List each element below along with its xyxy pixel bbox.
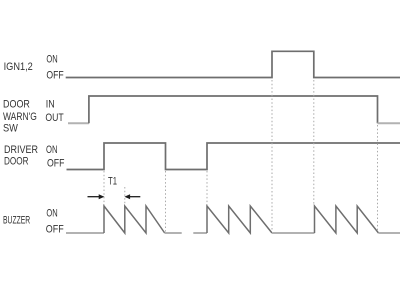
node dashed guide x=124.8 T1 right bbox=[124, 187, 126, 205]
svg-text:BUZZER: BUZZER bbox=[3, 215, 30, 227]
svg-text:WARN'G: WARN'G bbox=[3, 111, 37, 123]
node dashed guide x=104 driver-door-open bbox=[103, 171, 105, 205]
wire DRIVER DOOR waveform bbox=[67, 143, 401, 170]
svg-text:DOOR: DOOR bbox=[3, 99, 30, 111]
wire SW waveform bbox=[89, 96, 378, 123]
wire BUZZER sawtooth group 2 bbox=[207, 206, 272, 233]
svg-text:OUT: OUT bbox=[45, 112, 64, 124]
svg-text:IN: IN bbox=[46, 98, 55, 110]
svg-text:OFF: OFF bbox=[47, 157, 65, 169]
node dashed guide x=313.8 IGN off bbox=[313, 80, 315, 205]
wire BUZZER sawtooth group 3 bbox=[315, 206, 379, 233]
svg-text:ON: ON bbox=[46, 53, 57, 65]
wire BUZZER idle baseline 2a bbox=[165, 232, 182, 234]
wire BUZZER idle baseline 3 bbox=[272, 232, 315, 234]
node dashed guide x=207 driver-door-reopen bbox=[206, 171, 208, 205]
wire SW OUT idle right bbox=[378, 122, 401, 124]
wire SW OUT idle left bbox=[68, 122, 89, 124]
svg-text:ON: ON bbox=[46, 144, 58, 156]
svg-text:OFF: OFF bbox=[46, 69, 64, 81]
svg-text:OFF: OFF bbox=[46, 223, 64, 235]
node T1 right arrow bbox=[124, 194, 140, 199]
svg-text:ON: ON bbox=[46, 207, 57, 219]
node dashed guide x=272 IGN on bbox=[271, 80, 273, 232]
svg-text:SW: SW bbox=[3, 122, 18, 134]
wire BUZZER sawtooth group 1 bbox=[104, 206, 165, 233]
wire BUZZER idle baseline 1 bbox=[66, 232, 104, 234]
wire BUZZER idle baseline 4 bbox=[379, 232, 401, 234]
svg-text:DOOR: DOOR bbox=[4, 156, 29, 168]
svg-text:IGN1,2: IGN1,2 bbox=[4, 61, 33, 73]
node T1 left arrow bbox=[88, 194, 105, 199]
svg-text:T1: T1 bbox=[108, 175, 117, 187]
node dashed guide x=165.5 driver-door-close bbox=[165, 171, 167, 232]
svg-text:DRIVER: DRIVER bbox=[4, 144, 38, 156]
wire BUZZER idle baseline 2b bbox=[193, 232, 207, 234]
wire IGN1,2 waveform bbox=[66, 51, 400, 77]
node dashed guide x=377.5 key out bbox=[377, 125, 379, 232]
